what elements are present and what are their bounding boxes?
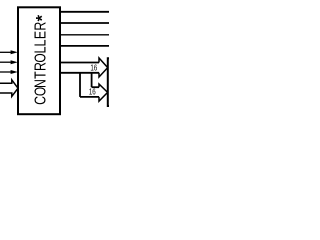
label CONTROLLER (vertical, bottom-to-top) bbox=[31, 22, 50, 105]
svg-text:L: L bbox=[33, 39, 50, 46]
memory block U2 (clipped at right edge) bbox=[108, 58, 109, 106]
arrowhead input 2 bbox=[11, 60, 18, 64]
svg-text:C: C bbox=[32, 96, 50, 105]
bus 2 arrowhead (hollow) bbox=[99, 84, 108, 101]
svg-text:*: * bbox=[34, 14, 52, 21]
input wire 3 bbox=[0, 71, 13, 73]
bus 1 arrowhead (hollow) bbox=[99, 58, 108, 77]
svg-text:16: 16 bbox=[89, 87, 96, 97]
bus 1 top wire bbox=[60, 62, 99, 64]
bus 2 bottom wire bbox=[80, 96, 99, 98]
input wire 1 bbox=[0, 51, 13, 53]
bus 2 top wire bbox=[92, 86, 99, 88]
output wire 2 bbox=[60, 22, 109, 24]
output wire 1 bbox=[60, 11, 109, 13]
svg-text:O: O bbox=[31, 53, 49, 62]
input bus arrow (hollow) bbox=[0, 80, 18, 97]
controller block U1 bbox=[18, 7, 60, 114]
output wire 4 bbox=[60, 45, 109, 47]
svg-text:L: L bbox=[33, 46, 50, 53]
arrowhead input 3 bbox=[11, 70, 18, 74]
svg-text:T: T bbox=[32, 71, 50, 79]
svg-text:R: R bbox=[32, 62, 50, 71]
bus 2 tap wire vertical B bbox=[91, 73, 93, 87]
svg-text:N: N bbox=[32, 79, 50, 88]
svg-text:R: R bbox=[32, 22, 50, 31]
bus 2 tap wire vertical A bbox=[79, 73, 81, 97]
output wire 3 bbox=[60, 34, 109, 36]
svg-text:E: E bbox=[32, 31, 50, 39]
bus 1 bottom wire bbox=[60, 72, 99, 74]
arrowhead input 1 bbox=[11, 50, 18, 54]
svg-text:16: 16 bbox=[90, 62, 97, 72]
input wire 2 bbox=[0, 61, 13, 63]
